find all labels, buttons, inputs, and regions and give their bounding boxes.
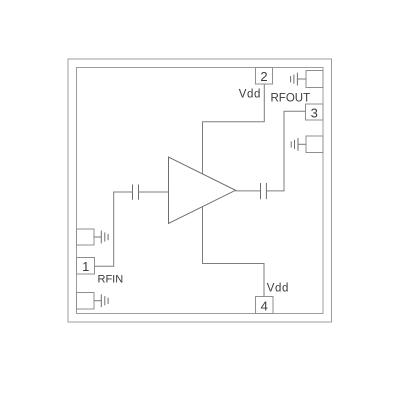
bond pad bottom-left xyxy=(77,293,95,310)
DC block capacitor C2 (output) xyxy=(260,183,262,199)
svg-text:Vdd: Vdd xyxy=(267,283,289,295)
svg-text:2: 2 xyxy=(260,69,267,84)
wire bond pad top-right to bypass capacitor xyxy=(297,78,306,80)
wire amplifier output to C2 xyxy=(236,190,261,192)
svg-text:Vdd: Vdd xyxy=(239,88,261,100)
ground (C5, decreasing bars) xyxy=(104,232,106,241)
ground (C4, decreasing bars) xyxy=(294,140,296,149)
pad 3 (RFOUT pin box) xyxy=(306,104,324,120)
bypass capacitor C5 plate xyxy=(100,231,102,244)
die outline (outer chip boundary) xyxy=(68,59,332,322)
svg-text:RFOUT: RFOUT xyxy=(271,93,311,105)
wire pad2 to amplifier top (Vdd feed) xyxy=(203,84,265,174)
bond pad mid-right xyxy=(306,136,323,153)
ground (C6, decreasing bars) xyxy=(104,296,106,305)
amplifier U1 (triangle) xyxy=(169,157,236,224)
wire bond pad mid-right to bypass capacitor xyxy=(298,143,306,145)
wire C2 to pad 3 xyxy=(266,111,305,191)
bypass capacitor C3 plate xyxy=(296,73,298,86)
pad 4 (Vdd pin box) xyxy=(256,297,274,314)
wire bond pad bottom-left to bypass capacitor xyxy=(94,300,101,302)
pad 1 (RFIN pin box) xyxy=(77,258,95,275)
svg-text:RFIN: RFIN xyxy=(98,273,124,285)
chip inner boundary xyxy=(77,68,324,314)
wire bond pad top-left to bypass capacitor xyxy=(94,236,101,238)
bond pad top-left xyxy=(77,229,95,245)
wire C1 to amplifier input xyxy=(139,191,169,193)
svg-text:1: 1 xyxy=(82,259,89,274)
bond pad top-right xyxy=(306,71,323,88)
ground (C3, decreasing bars) xyxy=(293,75,295,84)
bypass capacitor C6 plate xyxy=(100,294,102,307)
wire amplifier bottom to pad 4 (Vdd feed) xyxy=(203,207,265,297)
svg-text:3: 3 xyxy=(311,105,318,120)
DC block capacitor C1 (input) xyxy=(132,185,134,200)
pad 2 (Vdd pin box) xyxy=(256,68,273,85)
wire RFIN pad to C1 xyxy=(95,192,133,266)
bypass capacitor C4 plate xyxy=(297,138,299,151)
svg-text:4: 4 xyxy=(261,299,268,314)
